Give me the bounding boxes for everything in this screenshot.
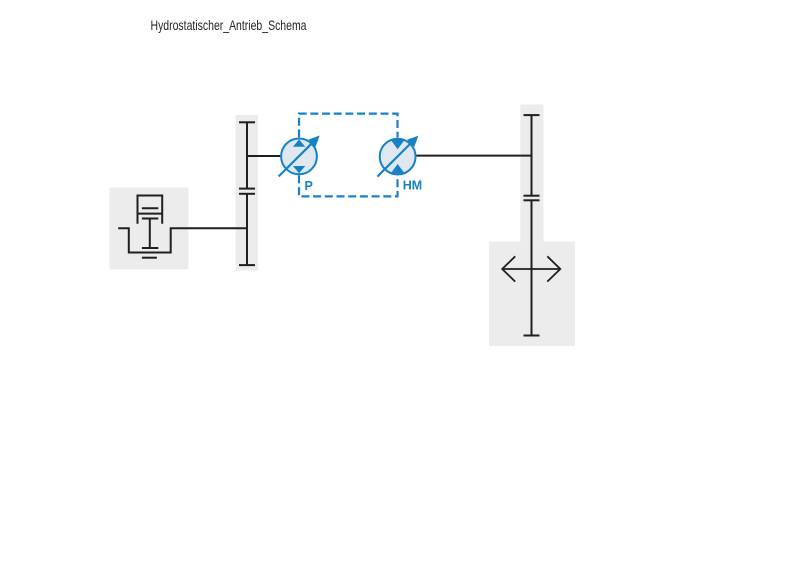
svg-text:Hydrostatischer_Antrieb_Schema: Hydrostatischer_Antrieb_Schema <box>151 17 307 33</box>
svg-text:P: P <box>305 179 313 193</box>
svg-text:HM: HM <box>403 178 422 192</box>
